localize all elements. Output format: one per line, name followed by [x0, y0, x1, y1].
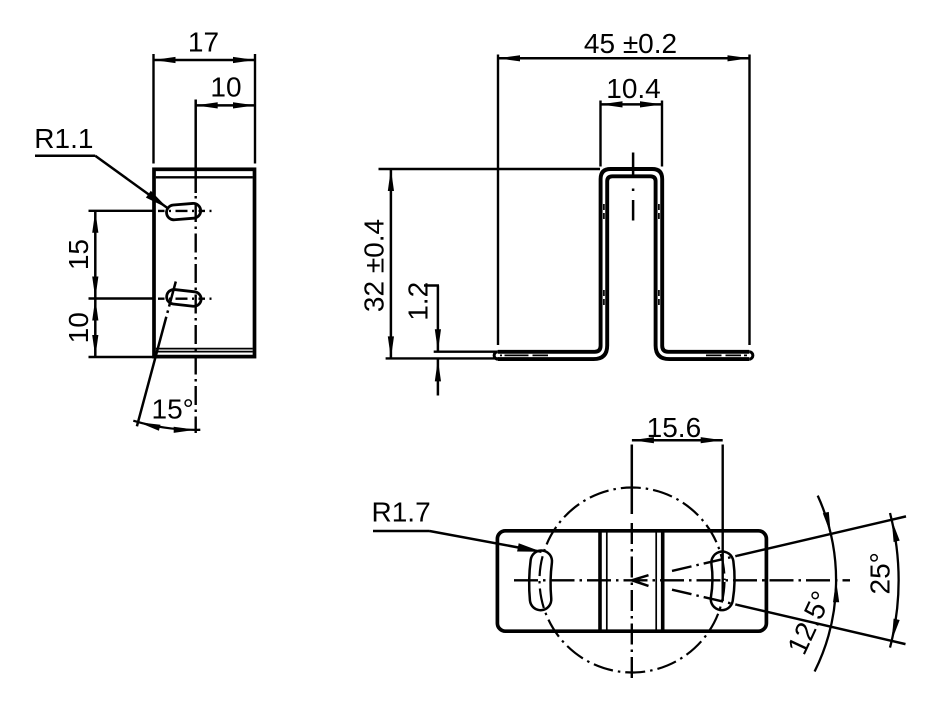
bottom view bend lines thick [600, 531, 663, 631]
angle vertex arrow [632, 575, 649, 586]
front view centerline [632, 153, 635, 221]
svg-text:12.5°: 12.5° [781, 586, 837, 659]
bottom view bend lines thin [607, 531, 656, 631]
svg-text:10: 10 [63, 312, 94, 343]
svg-text:32 ±0.4: 32 ±0.4 [359, 219, 390, 312]
svg-text:R1.1: R1.1 [34, 123, 93, 154]
reference circle dash-dot [540, 488, 725, 673]
svg-text:10: 10 [210, 72, 241, 103]
svg-text:1.2: 1.2 [403, 282, 434, 321]
dimension 32 +-0.4 [359, 169, 601, 358]
lower 12.5 deg line [672, 590, 906, 644]
svg-text:17: 17 [188, 27, 219, 58]
right flange slot marks [706, 354, 747, 356]
dimension 15.6 [632, 412, 723, 601]
right slot bottom view [722, 563, 724, 600]
15 deg construction line [137, 282, 176, 427]
dimension 12.5 deg arc [781, 496, 839, 672]
upper 12.5 deg line [672, 516, 906, 571]
dimension 10 top [196, 72, 255, 109]
left view body outline [154, 169, 255, 356]
svg-text:15°: 15° [152, 394, 194, 425]
bottom horizontal centerline [514, 579, 850, 581]
svg-text:R1.7: R1.7 [372, 497, 431, 528]
left view bottom bend lines [156, 349, 253, 352]
dimension 17 [154, 27, 256, 164]
lower slot centerline [158, 298, 216, 300]
left flange slot marks [500, 354, 548, 356]
label R1.7 with leader [372, 497, 542, 552]
svg-text:15: 15 [63, 239, 94, 270]
dimension 10 left [63, 299, 154, 358]
left view vertical centerline [194, 100, 197, 434]
right leg slot marks [658, 204, 660, 305]
svg-text:45 ±0.2: 45 ±0.2 [584, 28, 677, 59]
left view top bend line [156, 176, 253, 178]
front view inner surface [498, 176, 749, 359]
label R1.1 with leader [34, 123, 168, 208]
dimension 1.2 [403, 282, 496, 396]
dimension 15 left [63, 211, 153, 299]
dimension 25 deg arc [865, 513, 900, 648]
bottom view outline [497, 531, 766, 631]
svg-text:10.4: 10.4 [606, 73, 661, 104]
left leg slot marks [603, 204, 605, 305]
dimension 10.4 [601, 73, 663, 167]
dimension 45 +-0.2 [498, 28, 750, 345]
svg-text:25°: 25° [865, 552, 896, 594]
svg-text:15.6: 15.6 [647, 412, 702, 443]
upper slot centerline [158, 210, 216, 212]
upper slot [166, 203, 201, 221]
dimension 15 deg arc [133, 394, 200, 433]
flange end caps [494, 352, 753, 359]
front view outer surface [498, 169, 749, 352]
lower slot [166, 289, 202, 307]
bottom vertical centerline [631, 445, 634, 679]
left slot bottom view [540, 561, 541, 599]
